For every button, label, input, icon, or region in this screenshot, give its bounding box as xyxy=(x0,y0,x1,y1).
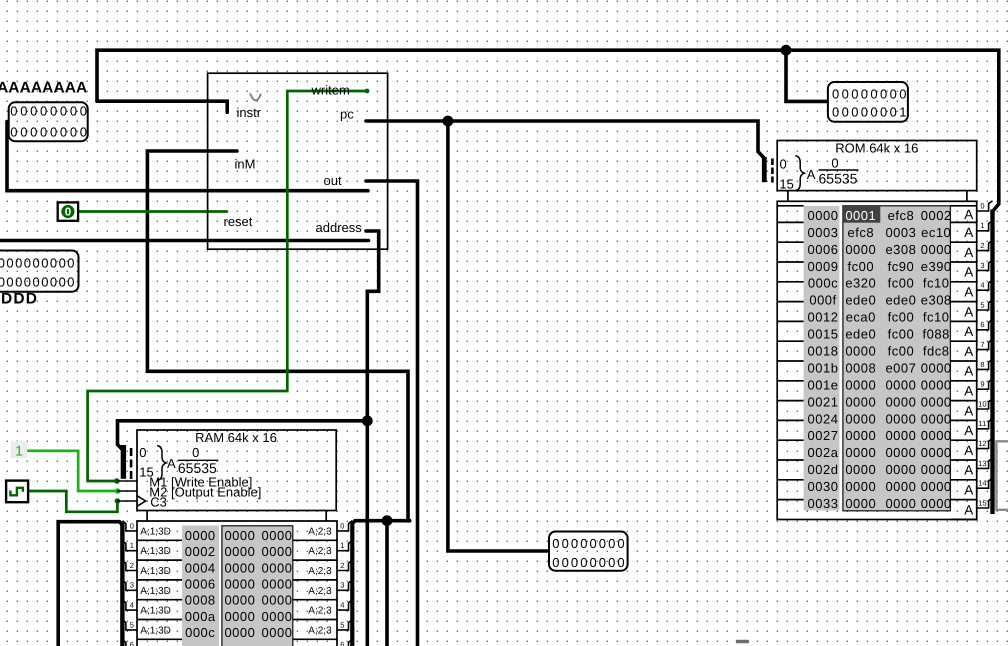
svg-text:A: A xyxy=(167,456,176,471)
RAM chip-table connector left xyxy=(146,511,148,522)
const1-M2 end xyxy=(115,488,121,494)
svg-text:000f: 000f xyxy=(809,293,836,308)
svg-text:2: 2 xyxy=(340,561,344,570)
svg-text:0000: 0000 xyxy=(224,560,255,575)
svg-text:0003: 0003 xyxy=(885,225,916,240)
svg-text:fdc8: fdc8 xyxy=(923,344,950,359)
svg-text:A: A xyxy=(964,304,973,319)
svg-text:0000: 0000 xyxy=(845,462,876,477)
svg-text:0018: 0018 xyxy=(808,344,839,359)
svg-text:12: 12 xyxy=(978,439,986,448)
svg-text:e308: e308 xyxy=(921,293,952,308)
wire out row wire xyxy=(7,122,368,191)
svg-text:inM: inM xyxy=(235,156,256,171)
ROM table left separators xyxy=(777,206,803,500)
svg-text:0000: 0000 xyxy=(224,593,255,608)
svg-text:fc00: fc00 xyxy=(888,344,915,359)
svg-text:fc00: fc00 xyxy=(888,327,915,342)
svg-text:A: A xyxy=(964,225,973,240)
svg-text:0000: 0000 xyxy=(224,577,255,592)
svg-text:0000: 0000 xyxy=(921,462,952,477)
RAM address port bar xyxy=(121,445,126,479)
wire ram address feed xyxy=(118,421,368,450)
svg-text:0000: 0000 xyxy=(921,496,952,511)
svg-text:001b: 001b xyxy=(808,360,839,375)
svg-text:A;1;3D: A;1;3D xyxy=(140,606,171,617)
svg-text:0: 0 xyxy=(780,156,787,171)
svg-text:0: 0 xyxy=(65,207,71,219)
svg-text:6: 6 xyxy=(340,640,344,646)
svg-text:0002: 0002 xyxy=(921,208,952,223)
svg-text:A;1;3D: A;1;3D xyxy=(140,566,171,577)
svg-text:13: 13 xyxy=(978,459,986,468)
writem end xyxy=(365,89,370,94)
RAM table data background xyxy=(222,526,293,646)
svg-text:A: A xyxy=(964,463,973,478)
ROM address port bar xyxy=(762,157,767,182)
svg-text:pc: pc xyxy=(340,107,354,122)
wire ram d-in feed xyxy=(58,522,122,646)
ROM chip-table connector left xyxy=(787,191,789,202)
ROM chip-table connector right xyxy=(966,191,968,202)
svg-text:A: A xyxy=(964,483,973,498)
svg-text:0000: 0000 xyxy=(262,544,293,559)
svg-text:fc90: fc90 xyxy=(888,259,915,274)
svg-text:A: A xyxy=(964,403,973,418)
svg-text:0000: 0000 xyxy=(921,242,952,257)
RAM pin stub C3 xyxy=(117,500,137,502)
RAM data-out splitter spine (right) xyxy=(350,522,354,646)
svg-text:e308: e308 xyxy=(885,242,916,257)
svg-text:0009: 0009 xyxy=(808,259,839,274)
junction ram data xyxy=(382,515,393,526)
RAM table right separators and labels xyxy=(293,540,337,646)
svg-text:00000000: 00000000 xyxy=(10,124,89,139)
junction top-right feed xyxy=(781,45,792,56)
svg-text:0000: 0000 xyxy=(921,377,952,392)
svg-text:A: A xyxy=(964,265,973,280)
svg-text:A: A xyxy=(964,423,973,438)
wire instr feed xyxy=(97,101,227,112)
svg-text:A;1;3D: A;1;3D xyxy=(140,546,171,557)
ROM output splitter spine xyxy=(990,210,994,515)
svg-text:A;1;3D: A;1;3D xyxy=(140,586,171,597)
svg-text:0: 0 xyxy=(192,445,199,460)
svg-text:A;2;3: A;2;3 xyxy=(308,546,332,557)
svg-text:C3: C3 xyxy=(150,495,167,510)
RAM fraction bar xyxy=(178,459,218,461)
svg-text:4: 4 xyxy=(980,281,984,290)
ROM splitter legs and bit numbers xyxy=(977,201,993,508)
svg-text:1: 1 xyxy=(15,442,23,458)
RAM pin stub M2 xyxy=(117,490,137,492)
svg-text:efc8: efc8 xyxy=(848,225,875,240)
svg-text:A: A xyxy=(964,384,973,399)
svg-text:002d: 002d xyxy=(808,462,839,477)
svg-text:0030: 0030 xyxy=(808,479,839,494)
junction pc xyxy=(443,116,454,127)
RAM brace xyxy=(157,446,166,481)
svg-text:0000: 0000 xyxy=(921,360,952,375)
gray handle bar xyxy=(736,640,749,643)
svg-text:0002: 0002 xyxy=(185,544,216,559)
svg-text:0000: 0000 xyxy=(262,609,293,624)
ROM table right separators xyxy=(950,206,976,520)
svg-text:efc8: efc8 xyxy=(888,208,915,223)
svg-text:fc10: fc10 xyxy=(923,310,950,325)
svg-text:7: 7 xyxy=(980,340,984,349)
svg-text:5: 5 xyxy=(130,620,134,629)
wire address bus xyxy=(366,231,379,646)
svg-text:ROM 64k x 16: ROM 64k x 16 xyxy=(835,140,918,155)
svg-text:0: 0 xyxy=(831,155,838,170)
svg-text:0000: 0000 xyxy=(224,625,255,640)
svg-text:6: 6 xyxy=(980,320,984,329)
svg-text:00000000: 00000000 xyxy=(552,555,626,570)
svg-text:0003: 0003 xyxy=(808,225,839,240)
svg-text:e390: e390 xyxy=(921,259,952,274)
ROM highlighted cell xyxy=(843,206,880,223)
svg-text:writem: writem xyxy=(311,83,350,98)
svg-text:0008: 0008 xyxy=(845,360,876,375)
svg-text:0000: 0000 xyxy=(845,479,876,494)
svg-text:fc10: fc10 xyxy=(923,276,950,291)
svg-text:15: 15 xyxy=(978,498,986,507)
probe DDD value xyxy=(0,251,79,292)
RAM pin stub M1 xyxy=(117,480,137,482)
svg-text:000c: 000c xyxy=(185,625,215,640)
svg-text:9: 9 xyxy=(980,380,984,389)
svg-text:reset: reset xyxy=(224,214,253,229)
svg-text:0000: 0000 xyxy=(885,377,916,392)
wire out bus xyxy=(366,181,418,646)
svg-text:0000: 0000 xyxy=(885,411,916,426)
svg-text:ec10: ec10 xyxy=(921,225,951,240)
svg-text:0004: 0004 xyxy=(185,560,216,575)
svg-text:3: 3 xyxy=(130,581,134,590)
svg-text:A: A xyxy=(964,245,973,260)
svg-text:A;1;3D: A;1;3D xyxy=(140,625,171,636)
svg-text:4: 4 xyxy=(130,601,134,610)
wire gray nil wire xyxy=(996,441,1008,510)
wire pc probe feed xyxy=(786,50,827,101)
svg-text:14: 14 xyxy=(978,479,986,488)
svg-text:A: A xyxy=(964,324,973,339)
svg-text:000c: 000c xyxy=(808,276,838,291)
RAM clock triangle xyxy=(137,496,146,507)
constant 1 xyxy=(11,441,27,458)
svg-text:0000: 0000 xyxy=(224,544,255,559)
svg-text:0000: 0000 xyxy=(885,496,916,511)
svg-text:5: 5 xyxy=(340,620,344,629)
svg-text:11: 11 xyxy=(979,419,987,428)
svg-text:0000: 0000 xyxy=(921,445,952,460)
wire clock wire xyxy=(28,491,117,512)
svg-text:002a: 002a xyxy=(808,445,839,460)
svg-text:0000: 0000 xyxy=(885,462,916,477)
svg-text:A: A xyxy=(964,443,973,458)
svg-text:3: 3 xyxy=(980,261,984,270)
svg-text:0000: 0000 xyxy=(262,528,293,543)
svg-text:A: A xyxy=(964,502,973,517)
svg-text:0000: 0000 xyxy=(885,428,916,443)
svg-text:0033: 0033 xyxy=(808,496,839,511)
svg-text:DDD: DDD xyxy=(1,291,38,308)
svg-text:4: 4 xyxy=(340,601,344,610)
svg-text:out: out xyxy=(324,173,342,188)
svg-text:A: A xyxy=(807,167,816,182)
ROM table data background xyxy=(843,206,951,511)
RAM table rows text xyxy=(185,528,293,640)
svg-text:000000000: 000000000 xyxy=(0,256,76,271)
svg-text:0000: 0000 xyxy=(845,242,876,257)
ROM contents table frame xyxy=(777,201,977,519)
ROM table rows text xyxy=(808,208,952,511)
probe pc value xyxy=(828,82,909,122)
svg-text:0021: 0021 xyxy=(808,394,839,409)
RAM right splitter legs and numbers xyxy=(337,521,352,646)
ROM fraction bar xyxy=(819,169,859,171)
svg-text:0000: 0000 xyxy=(845,411,876,426)
svg-text:2: 2 xyxy=(130,561,134,570)
svg-text:0000: 0000 xyxy=(921,394,952,409)
svg-text:0000: 0000 xyxy=(845,344,876,359)
svg-text:A;1;3D: A;1;3D xyxy=(140,526,171,537)
svg-text:0000: 0000 xyxy=(885,394,916,409)
svg-text:0000: 0000 xyxy=(224,609,255,624)
svg-text:A;2;3: A;2;3 xyxy=(308,526,332,537)
svg-text:0000: 0000 xyxy=(262,625,293,640)
svg-text:0: 0 xyxy=(139,445,146,460)
svg-text:0027: 0027 xyxy=(808,428,839,443)
wire address row wire xyxy=(0,239,369,243)
ROM table address column background xyxy=(804,206,840,511)
svg-text:0000: 0000 xyxy=(921,479,952,494)
RAM data-in splitter spine (left) xyxy=(120,523,124,646)
svg-text:ede0: ede0 xyxy=(845,293,876,308)
svg-text:ede0: ede0 xyxy=(845,327,876,342)
svg-text:0015: 0015 xyxy=(808,327,839,342)
probe out value xyxy=(549,532,628,571)
svg-text:0000: 0000 xyxy=(262,577,293,592)
svg-text:8: 8 xyxy=(980,360,984,369)
ROM 64k x 16 chip xyxy=(777,141,977,191)
svg-text:0006: 0006 xyxy=(808,242,839,257)
svg-text:65535: 65535 xyxy=(819,170,858,186)
svg-text:A;2;3: A;2;3 xyxy=(308,606,332,617)
svg-text:0000: 0000 xyxy=(845,428,876,443)
svg-text:10: 10 xyxy=(978,399,986,408)
subcircuit CPU box xyxy=(208,73,388,249)
wire bus x387 down xyxy=(385,521,389,646)
svg-text:A;2;3: A;2;3 xyxy=(308,586,332,597)
svg-text:00000001: 00000001 xyxy=(832,105,909,120)
svg-text:0000: 0000 xyxy=(845,445,876,460)
ROM annex A labels xyxy=(964,207,973,517)
svg-text:000a: 000a xyxy=(185,609,216,624)
svg-text:5: 5 xyxy=(980,300,984,309)
probe AAAAAAAA value xyxy=(9,102,90,141)
svg-text:0000: 0000 xyxy=(224,528,255,543)
svg-text:address: address xyxy=(316,220,363,235)
svg-text:e320: e320 xyxy=(845,276,876,291)
svg-text:0012: 0012 xyxy=(808,310,839,325)
wire const1 wire xyxy=(27,451,118,491)
svg-text:0006: 0006 xyxy=(185,577,216,592)
svg-text:2: 2 xyxy=(980,241,984,250)
svg-text:fc00: fc00 xyxy=(888,276,915,291)
wire ram data horizontal xyxy=(352,521,409,524)
svg-text:001e: 001e xyxy=(808,377,839,392)
clock-C3 end xyxy=(115,498,121,504)
svg-text:eca0: eca0 xyxy=(846,310,876,325)
svg-text:0000: 0000 xyxy=(921,428,952,443)
svg-text:0000: 0000 xyxy=(921,411,952,426)
wire writem wire xyxy=(88,91,367,481)
svg-text:A;2;3: A;2;3 xyxy=(308,625,332,636)
svg-text:A: A xyxy=(964,364,973,379)
RAM chip-table connector right xyxy=(325,511,327,522)
RAM left splitter legs and numbers xyxy=(122,521,137,646)
svg-text:fc00: fc00 xyxy=(848,259,875,274)
svg-text:ede0: ede0 xyxy=(885,293,916,308)
wire top bus xyxy=(97,50,999,211)
writem-M1 end xyxy=(114,478,120,484)
svg-text:3: 3 xyxy=(340,581,344,590)
svg-text:000000000: 000000000 xyxy=(0,274,76,289)
svg-text:0024: 0024 xyxy=(808,411,839,426)
svg-text:15: 15 xyxy=(779,176,793,191)
svg-text:00000000: 00000000 xyxy=(10,103,89,118)
wire pc bus xyxy=(366,121,764,158)
CPU facing chevron xyxy=(250,93,261,100)
svg-text:1: 1 xyxy=(980,221,984,230)
svg-text:0000: 0000 xyxy=(262,593,293,608)
svg-text:0001: 0001 xyxy=(845,208,876,223)
svg-text:A: A xyxy=(964,207,973,222)
svg-text:0000: 0000 xyxy=(845,496,876,511)
svg-text:fc00: fc00 xyxy=(888,310,915,325)
svg-text:00000000: 00000000 xyxy=(832,87,909,102)
RAM table address column background xyxy=(182,526,219,646)
wire pc down bus xyxy=(448,121,548,551)
svg-text:65535: 65535 xyxy=(178,460,217,476)
svg-text:1: 1 xyxy=(130,541,134,550)
svg-text:A: A xyxy=(964,285,973,300)
svg-text:A;2;3: A;2;3 xyxy=(308,566,332,577)
ROM brace xyxy=(795,156,804,191)
svg-text:00000000: 00000000 xyxy=(552,536,626,551)
svg-text:A: A xyxy=(964,344,973,359)
clock component xyxy=(6,481,28,503)
svg-text:instr: instr xyxy=(237,105,262,120)
RAM address port dashes xyxy=(130,448,133,479)
RAM table left separators and labels xyxy=(137,540,182,646)
svg-text:f088: f088 xyxy=(923,327,950,342)
svg-text:6: 6 xyxy=(130,640,134,646)
svg-text:e007: e007 xyxy=(885,360,916,375)
RAM contents table frame xyxy=(137,521,337,646)
svg-text:0: 0 xyxy=(980,201,984,210)
svg-text:0000: 0000 xyxy=(185,528,216,543)
svg-text:0000: 0000 xyxy=(845,377,876,392)
svg-text:AAAAAAAA: AAAAAAAA xyxy=(0,79,87,96)
input pin 0 (reset constant) xyxy=(58,202,78,220)
wire inM bus xyxy=(147,151,408,521)
svg-text:0: 0 xyxy=(340,521,344,530)
RAM 64k x 16 chip xyxy=(137,430,336,511)
wire reset wire xyxy=(78,210,227,213)
svg-text:0000: 0000 xyxy=(262,560,293,575)
svg-text:0000: 0000 xyxy=(845,394,876,409)
junction address-ram xyxy=(362,415,373,426)
svg-text:0000: 0000 xyxy=(885,445,916,460)
svg-text:RAM 64k x 16: RAM 64k x 16 xyxy=(195,430,277,445)
svg-text:1: 1 xyxy=(340,541,344,550)
svg-text:0008: 0008 xyxy=(185,593,216,608)
svg-text:0000: 0000 xyxy=(808,208,839,223)
ROM address port dashes xyxy=(771,159,774,183)
svg-text:0000: 0000 xyxy=(885,479,916,494)
svg-text:0: 0 xyxy=(130,521,134,530)
